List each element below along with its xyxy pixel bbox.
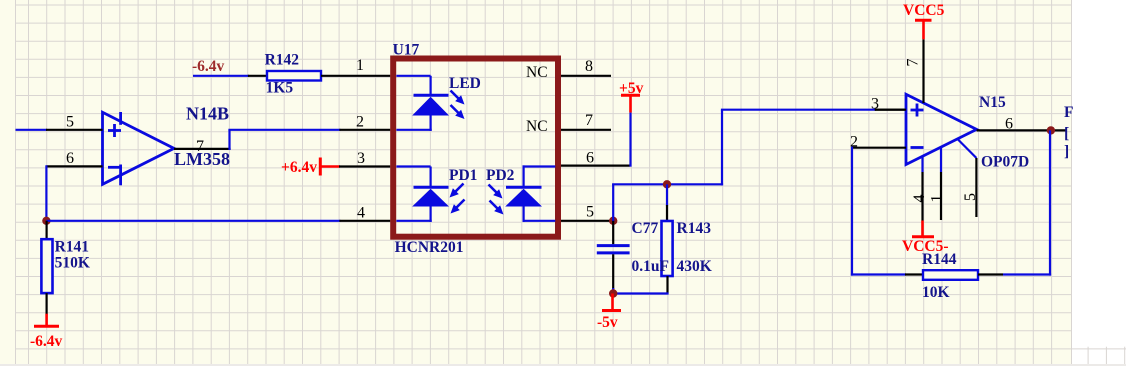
junction node C (R143 tap) <box>663 180 671 188</box>
value 1K5 <box>266 79 294 96</box>
label LM358 <box>174 149 230 169</box>
svg-text:7: 7 <box>585 112 593 129</box>
svg-text:NC: NC <box>526 64 548 81</box>
svg-text:1: 1 <box>356 57 364 74</box>
svg-text:R144: R144 <box>922 251 957 268</box>
resistor R143 <box>662 184 673 293</box>
wire N14B pin 6 (-IN) to node A <box>46 165 102 221</box>
PD2 light arrows <box>489 185 504 215</box>
svg-text:510K: 510K <box>55 255 90 272</box>
U17 pin 6 stub <box>561 150 630 167</box>
feedback wire (output to R144 to N15 pin 2) <box>851 130 1051 275</box>
LED light arrows <box>451 91 465 120</box>
svg-text:0.1uF: 0.1uF <box>632 258 669 275</box>
label U17 <box>393 42 420 59</box>
svg-text:2: 2 <box>356 114 364 131</box>
label R144 <box>922 251 957 268</box>
power +6.4v <box>281 158 340 177</box>
wire node A to U17 pin 4 <box>46 220 390 222</box>
svg-text:-6.4v: -6.4v <box>30 333 63 350</box>
wire -6.4v net to R142 <box>193 75 267 77</box>
svg-text:1: 1 <box>929 195 946 203</box>
value 0.1uF <box>632 258 669 275</box>
power VCC5 <box>903 2 945 39</box>
label R143 <box>677 220 712 237</box>
pin 6 label <box>66 150 74 167</box>
value 510K <box>55 255 90 272</box>
junction node D (-5v) <box>609 289 617 297</box>
svg-text:6: 6 <box>586 150 594 167</box>
N15 pin 3 wire + label <box>871 96 906 113</box>
svg-text:8: 8 <box>585 58 593 75</box>
resistor R142 <box>267 71 321 81</box>
svg-text:N15: N15 <box>979 94 1006 111</box>
N15 pin 1 <box>929 147 946 220</box>
junction node B (pin5/C77) <box>609 217 617 225</box>
svg-text:HCNR201: HCNR201 <box>395 239 464 256</box>
svg-text:3: 3 <box>357 150 365 167</box>
wire to N14B pin 5 (+IN) <box>16 129 103 131</box>
svg-text:F: F <box>1064 104 1073 121</box>
resistor R141 <box>41 221 52 315</box>
junction node E (output) <box>1047 126 1055 134</box>
svg-text:1K5: 1K5 <box>266 79 294 96</box>
svg-text:N14B: N14B <box>186 104 229 124</box>
svg-text:PD2: PD2 <box>486 167 515 184</box>
svg-text:4: 4 <box>357 205 365 222</box>
label R142 <box>265 52 300 69</box>
label OP07D <box>981 154 1029 171</box>
U17 pin 3 number <box>357 150 365 167</box>
svg-text:LED: LED <box>449 75 481 92</box>
op-amp N15 <box>906 94 977 164</box>
PD1 light arrows <box>450 184 465 214</box>
svg-text:430K: 430K <box>677 258 712 275</box>
photodiode PD1 <box>396 167 449 222</box>
svg-text:4: 4 <box>911 195 928 203</box>
svg-text:-6.4v: -6.4v <box>192 58 225 75</box>
label HCNR201 <box>395 239 464 256</box>
svg-text:R143: R143 <box>677 220 712 237</box>
svg-text:[: [ <box>1064 125 1069 142</box>
photodiode PD2 <box>505 165 555 222</box>
N15 pin 7 <box>905 39 924 103</box>
label R141 <box>55 239 89 256</box>
optocoupler U17 box <box>393 59 558 237</box>
svg-text:6: 6 <box>1005 116 1013 133</box>
power +5v <box>619 80 644 167</box>
label PD1 <box>449 167 477 184</box>
svg-text:7: 7 <box>905 59 922 67</box>
svg-text:6: 6 <box>66 150 74 167</box>
power -5v <box>597 294 621 332</box>
op-amp N14B <box>103 112 175 185</box>
power VCC5- <box>902 221 949 256</box>
resistor R144 <box>905 270 1003 280</box>
N15 pin 5 <box>958 140 979 218</box>
svg-text:-5v: -5v <box>597 314 618 331</box>
U17 pin 2 number <box>356 114 364 131</box>
U17 pin 5 stub <box>561 204 613 221</box>
capacitor C77 <box>597 221 630 294</box>
label LED <box>449 75 481 92</box>
U17 pin 7 (NC) <box>526 112 611 135</box>
svg-text:U17: U17 <box>393 42 420 59</box>
pin 7 label (N14B out) <box>196 138 204 155</box>
wire C77/R143 bottom <box>612 292 669 294</box>
svg-text:NC: NC <box>526 118 548 135</box>
value 430K <box>677 258 712 275</box>
value 10K <box>922 284 950 301</box>
svg-text:PD1: PD1 <box>449 167 477 184</box>
U17 pin 4 number <box>357 205 365 222</box>
svg-text:]: ] <box>1064 143 1069 160</box>
label C77 <box>632 220 659 237</box>
label N14B <box>186 104 229 124</box>
LED (U17 emitter diode) <box>396 76 449 131</box>
svg-text:R141: R141 <box>55 239 89 256</box>
label N15 <box>979 94 1006 111</box>
svg-text:5: 5 <box>586 204 594 221</box>
svg-text:5: 5 <box>962 193 979 201</box>
wire R142 to U17 pin 1 <box>321 75 390 77</box>
svg-text:10K: 10K <box>922 284 950 301</box>
svg-text:5: 5 <box>66 114 74 131</box>
net label -6.4v <box>192 58 225 75</box>
wire N14B pin 7 output to U17 pin 2 <box>174 130 390 150</box>
svg-text:+6.4v: +6.4v <box>281 159 317 176</box>
wire +6.4v to U17 pin 3 <box>339 165 390 167</box>
svg-text:OP07D: OP07D <box>981 154 1029 171</box>
svg-text:7: 7 <box>196 138 204 155</box>
clipped part labels at sheet edge <box>1064 104 1073 160</box>
junction node A <box>42 217 50 225</box>
svg-text:R142: R142 <box>265 52 300 69</box>
N15 pin 2 wire + label <box>850 134 906 151</box>
power -6.4v (bottom) <box>30 314 63 350</box>
svg-text:VCC5: VCC5 <box>903 2 945 19</box>
svg-text:3: 3 <box>871 96 879 113</box>
wire node B up and across to N15 pin 3 <box>612 110 906 222</box>
svg-text:C77: C77 <box>632 220 659 237</box>
N15 pin 4 <box>911 156 928 220</box>
U17 pin 1 number <box>356 57 364 74</box>
U17 pin 8 (NC) <box>526 58 611 81</box>
label PD2 <box>486 167 515 184</box>
N15 output pin 6 wire <box>977 116 1066 133</box>
pin 5 label <box>66 114 74 131</box>
